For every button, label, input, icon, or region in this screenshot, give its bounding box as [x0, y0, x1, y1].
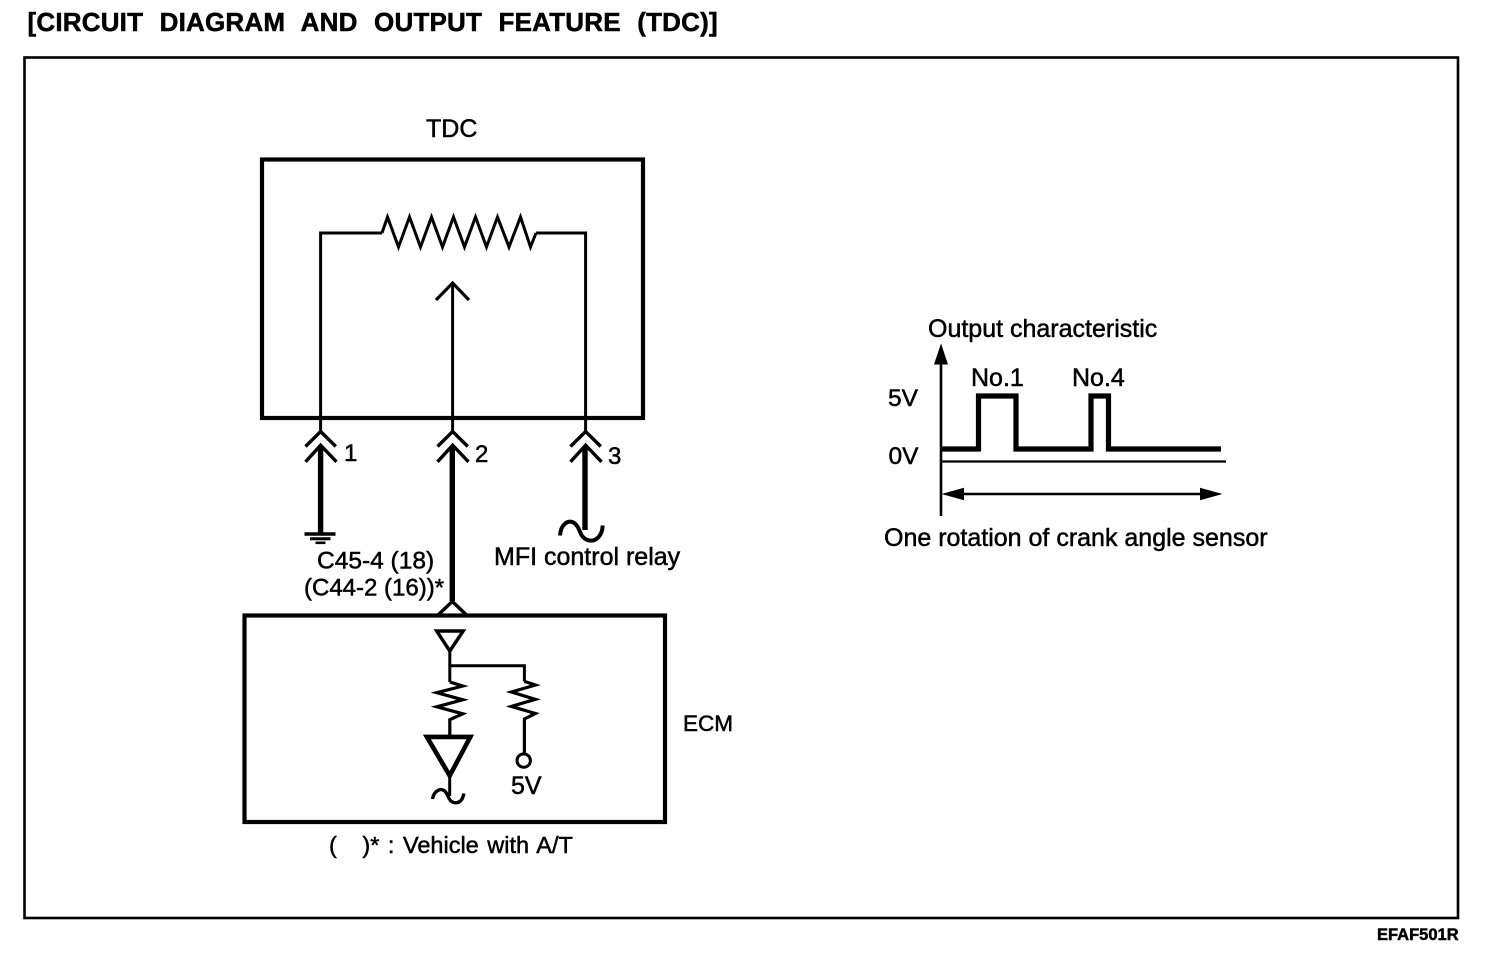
svg-text:0V: 0V [889, 443, 920, 470]
svg-text:No.4: No.4 [1072, 364, 1125, 392]
pickup arrow (hall element) [451, 284, 454, 418]
wire: pin2 down to ECM entry [450, 447, 455, 601]
graph vertical axis [940, 360, 943, 516]
svg-text:1: 1 [344, 440, 357, 467]
buffer triangle (input) [437, 631, 464, 651]
wire: triangle to junction [448, 651, 451, 682]
ECM entry chevron [439, 602, 467, 615]
wire: left inner vertical, pin1 to resistor [321, 233, 382, 418]
svg-text:[CIRCUIT DIAGRAM AND OUTPUT FE: [CIRCUIT DIAGRAM AND OUTPUT FEATURE (TDC… [28, 7, 718, 37]
svg-text:Output characteristic: Output characteristic [928, 315, 1157, 343]
ECM box [245, 616, 666, 823]
sensor box TDC [262, 160, 643, 419]
waveform trace [941, 396, 1221, 449]
svg-text:3: 3 [608, 443, 621, 470]
svg-text:5V: 5V [511, 772, 542, 800]
svg-text:One rotation of crank angle se: One rotation of crank angle sensor [884, 524, 1268, 552]
svg-text:TDC: TDC [426, 115, 477, 143]
terminal circle 5V [517, 754, 530, 767]
svg-text:EFAF501R: EFAF501R [1377, 926, 1459, 944]
svg-text:2: 2 [475, 441, 488, 468]
resistor (left, signal path) [437, 682, 463, 737]
svg-text:ECM: ECM [683, 711, 733, 736]
wire: triangle to squiggle [448, 776, 451, 796]
connector pin 1 [319, 418, 322, 432]
node junction / wire to right branch [450, 666, 525, 682]
squiggle to internal circuit [433, 790, 464, 803]
wire: pin3 to MFI control relay [582, 447, 587, 530]
wire: pin1 to ground [318, 447, 323, 533]
connector pin 3 [584, 418, 587, 432]
amplifier triangle [427, 737, 470, 776]
svg-text:C45-4 (18): C45-4 (18) [317, 548, 434, 575]
svg-text:5V: 5V [888, 385, 919, 412]
wire: right inner vertical, resistor to pin3 [536, 233, 586, 418]
ground [305, 532, 336, 536]
svg-text:MFI control relay: MFI control relay [494, 543, 681, 571]
connector pin 2 [451, 418, 454, 432]
span arrow (one rotation) [948, 493, 1216, 496]
resistor (pull-up to 5V) [511, 681, 535, 753]
resistor R1 (TDC internal) [382, 217, 536, 247]
svg-text:(C44-2 (16))*: (C44-2 (16))* [304, 575, 444, 602]
svg-text:No.1: No.1 [971, 364, 1024, 392]
svg-text:( )* : Vehicle with A/T: ( )* : Vehicle with A/T [329, 832, 573, 858]
squiggle to MFI control relay [560, 522, 603, 541]
baseline thin rule [941, 460, 1226, 462]
